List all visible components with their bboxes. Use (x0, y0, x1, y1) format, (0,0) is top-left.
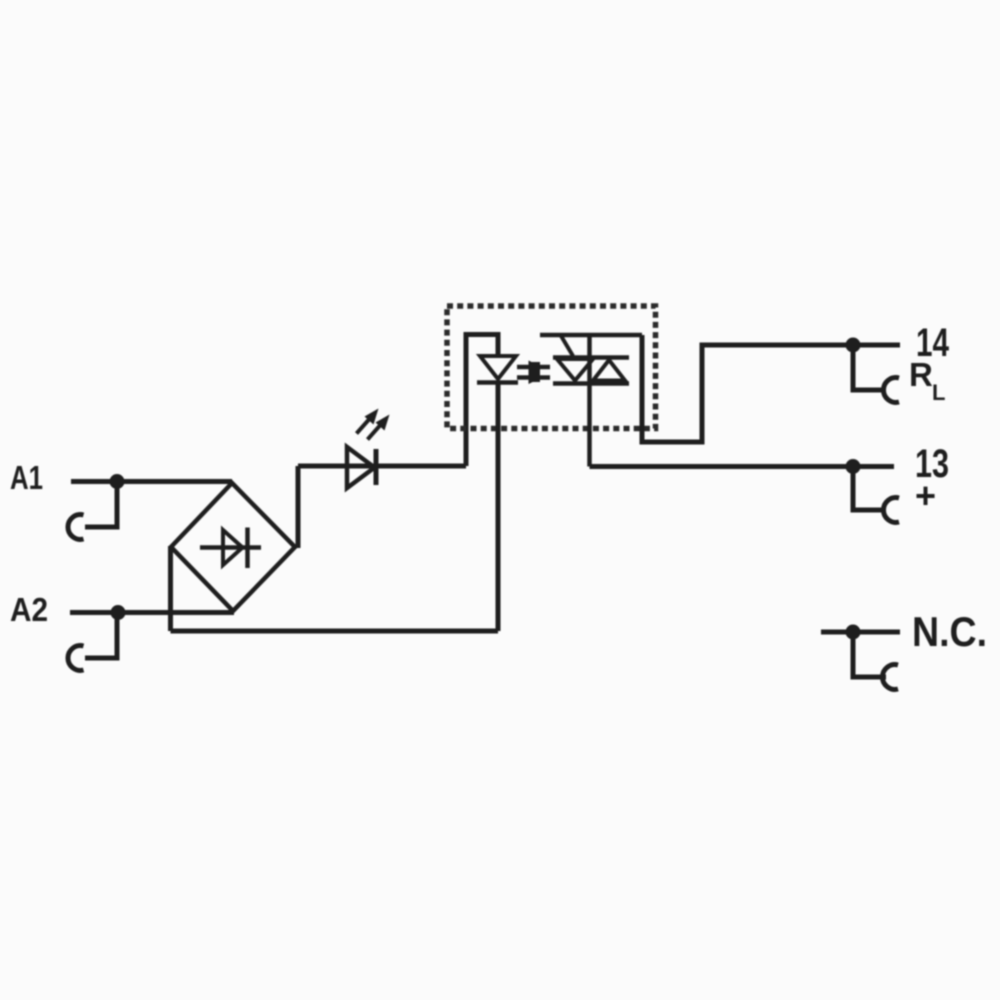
triac right triangle (593, 360, 625, 381)
wire bridge right vertex up (296, 466, 301, 548)
clamp contact A2 (68, 646, 84, 671)
wire LED to optocoupler anode (466, 335, 498, 467)
bridge rectifier diamond (171, 483, 295, 611)
node 13 junction (846, 459, 861, 474)
wire triac out right step (642, 335, 900, 442)
node A1 junction (110, 474, 125, 489)
bridge diode horizontal lead (200, 545, 261, 550)
bridge diode triangle (223, 530, 243, 565)
wire N.C. stub (821, 630, 900, 635)
svg-text:N.C.: N.C. (912, 608, 987, 655)
node A2 junction (111, 605, 126, 620)
coupling arrow 1 (517, 361, 550, 374)
triac top bar (553, 355, 629, 360)
coupling arrow 2 (517, 371, 550, 384)
opto LED triangle (480, 356, 516, 379)
triac MT vertical (587, 335, 592, 467)
svg-text:+: + (915, 475, 936, 516)
wire A2 horizontal (70, 610, 234, 615)
triac left triangle (557, 359, 593, 381)
svg-text:R: R (909, 356, 933, 393)
wire 13 horizontal (590, 464, 895, 469)
svg-text:L: L (932, 380, 945, 405)
clamp contact N.C. (853, 632, 886, 677)
LED D1 triangle (347, 447, 375, 488)
optocoupler U1 dashed box (447, 306, 656, 429)
node N.C. junction (846, 625, 861, 640)
clamp contact 14 (853, 345, 882, 390)
clamp contact 13 (853, 467, 882, 511)
wire LED level y=466 (298, 464, 466, 469)
node 14 junction (846, 338, 861, 353)
wire A2 clamp link (85, 613, 117, 658)
bridge diode cathode bar (245, 528, 250, 569)
LED D1 emission arrow 2 (368, 415, 390, 440)
coupling arrow core (529, 362, 540, 382)
LED D1 emission arrow 1 (357, 409, 379, 434)
svg-text:A2: A2 (10, 591, 48, 628)
svg-text:A1: A1 (10, 459, 43, 496)
triac bottom bar (553, 381, 629, 386)
wire bridge left vertex down (168, 546, 173, 631)
triac gate diagonal (561, 335, 574, 356)
wire opto cathode down to bottom return (496, 383, 501, 632)
clamp contact A1 (68, 515, 84, 540)
LED D1 cathode bar (374, 449, 379, 485)
triac gate stub wire (540, 333, 642, 338)
wire A1 clamp link (85, 482, 117, 527)
wire A1 horizontal (71, 479, 232, 484)
wire bottom return y=631 (171, 629, 499, 634)
opto LED cathode bar (477, 380, 518, 385)
